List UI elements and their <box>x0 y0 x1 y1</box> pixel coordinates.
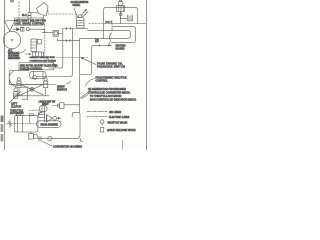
leader squiggle <box>109 33 112 44</box>
check valve symbol (solid arrow + circle) <box>13 28 16 30</box>
wire bell crank stub <box>43 16 45 19</box>
svg-text:CLUTCH: CLUTCH <box>11 106 21 109</box>
engine body <box>15 116 38 132</box>
small relay circle <box>26 28 29 31</box>
wire dashed diagonal with arrow <box>45 57 57 66</box>
svg-text:AIR LINES: AIR LINES <box>109 111 121 114</box>
svg-text:CONTROLLED CONVERTER MECH.: CONTROLLED CONVERTER MECH. <box>88 91 130 94</box>
tee to reservoir cup <box>121 17 127 19</box>
wire horn out with arrow <box>57 117 61 119</box>
leader curve from drum label <box>20 50 26 54</box>
feed arrow into manifold <box>25 53 31 55</box>
reservoir cup <box>127 15 132 21</box>
svg-text:◦ CONN ROD AND CLEVIS: ◦ CONN ROD AND CLEVIS <box>29 60 56 63</box>
wire dashed horizontal to treadle <box>48 11 77 18</box>
junction ticks <box>66 27 68 29</box>
manifold valve horizontal <box>33 52 44 57</box>
box under governor <box>39 112 45 117</box>
svg-text:REAR ENGINE: REAR ENGINE <box>41 124 59 127</box>
governor unit top <box>118 1 123 6</box>
bell crank bracket <box>37 3 49 17</box>
svg-text:N.C.: N.C. <box>22 13 27 17</box>
left clutch valve <box>14 88 18 92</box>
legend electric line sample <box>87 116 107 118</box>
svg-text:BOARD: BOARD <box>116 47 125 50</box>
inset valve left <box>17 78 20 81</box>
wire relay to right with bend <box>29 29 44 33</box>
slave cylinder capsule <box>30 71 47 78</box>
svg-text:N.O. V: N.O. V <box>106 21 113 23</box>
clutch lever arm <box>10 92 21 103</box>
treadle base wire <box>63 28 88 30</box>
wire inset bottom link <box>45 84 56 86</box>
wire connector to bus <box>59 33 64 35</box>
wire bend to connector <box>42 32 53 34</box>
transmission loop box top-right <box>104 8 138 24</box>
vertical from transmission box <box>103 24 105 39</box>
bus vertical 3 <box>79 39 81 113</box>
callout box SEE INSET <box>14 18 43 25</box>
air drum wheel <box>3 31 20 48</box>
svg-text:◦ ADJUST LINK AND ROD: ◦ ADJUST LINK AND ROD <box>29 56 55 59</box>
page right border <box>146 0 148 150</box>
svg-text:CONVERTER HOUSING: CONVERTER HOUSING <box>53 144 82 148</box>
pilot box beside cylinder <box>37 40 41 44</box>
svg-text:PEDAL: PEDAL <box>73 4 82 7</box>
bus vertical 1 <box>62 29 64 66</box>
svg-text:QUICK RELEASE VALVE: QUICK RELEASE VALVE <box>107 129 136 132</box>
margin sideways text left edge <box>1 116 4 142</box>
linkage pivot circle on wire <box>33 75 37 79</box>
svg-text:NON CONTROLLED INDICATOR MECH.: NON CONTROLLED INDICATOR MECH. <box>90 99 137 102</box>
bus vertical 2 <box>71 29 73 75</box>
wire dashed vertical from top <box>18 2 20 20</box>
svg-text:AUX. BRAKE CONTROL: AUX. BRAKE CONTROL <box>15 22 45 25</box>
valve N.C. <box>28 12 31 15</box>
horn bars <box>44 115 46 123</box>
legend air line sample <box>87 111 107 113</box>
rear engine label capsule <box>37 121 62 128</box>
shutoff valve on line <box>95 38 99 43</box>
wire dashed horizontal mid crossing <box>56 57 89 59</box>
inset box outline <box>9 71 45 85</box>
svg-text:SWITCH: SWITCH <box>57 88 67 91</box>
wire lower manifold <box>58 39 80 41</box>
air cylinder vertical <box>31 39 37 52</box>
dashed link to engine <box>30 109 40 111</box>
svg-text:SHUTTLE VALVE: SHUTTLE VALVE <box>108 122 128 125</box>
linkage cross rods <box>21 85 43 95</box>
clutch yoke bracket <box>22 87 28 99</box>
left yoke curve <box>9 72 14 87</box>
wire capsule to bus 2 <box>36 75 72 77</box>
universal joint circle <box>48 137 52 141</box>
legend quick release symbol <box>101 127 104 132</box>
fold mark bottom right <box>121 140 123 150</box>
svg-text:ELECTRIC LINES: ELECTRIC LINES <box>109 116 130 119</box>
hook bracket <box>39 113 42 115</box>
long air line across top <box>89 23 104 25</box>
box under engine <box>30 132 32 134</box>
converter riser <box>77 114 80 139</box>
converter cap staple <box>72 112 80 117</box>
racetrack outer line <box>112 27 136 43</box>
leader front eng throttle <box>86 79 95 87</box>
wire dashed vertical mid-left <box>44 25 46 57</box>
svg-text:FORCIB CONTROL: FORCIB CONTROL <box>20 67 43 70</box>
horn cone <box>47 115 53 122</box>
callout box SEE NOTE <box>19 63 54 70</box>
valve N.C. supply line <box>29 0 31 12</box>
connector block <box>53 31 59 37</box>
drive shaft line <box>38 138 77 140</box>
wire valve to bell crank <box>31 12 38 14</box>
flange bars <box>38 136 40 141</box>
pedal funnel <box>74 8 78 17</box>
left clutch wire <box>9 85 15 89</box>
leader converter housing <box>43 142 53 147</box>
relay block lower middle <box>60 103 65 109</box>
racetrack inner line <box>80 31 131 39</box>
leader front eng oil <box>82 58 97 65</box>
page left border <box>4 0 6 150</box>
linkage pivot cross <box>30 87 34 91</box>
wire governor down <box>120 11 122 23</box>
converter end stub <box>81 139 83 142</box>
linkage base <box>14 95 49 97</box>
legend shuttle valve symbol <box>100 120 104 124</box>
svg-text:ENGAGED: ENGAGED <box>8 57 20 60</box>
junction tick heater line <box>99 44 101 46</box>
svg-text:PRESSURE SWITCH: PRESSURE SWITCH <box>97 66 125 69</box>
leader generator note <box>82 95 88 99</box>
treadle antennae with arrows <box>81 10 87 16</box>
wire inset to bus upper <box>49 66 63 69</box>
racetrack link tick <box>111 27 113 31</box>
leader to notes <box>80 90 91 99</box>
svg-text:CONTROL: CONTROL <box>96 80 109 83</box>
margin note top-left <box>10 0 14 2</box>
governor capsule rear <box>40 105 48 111</box>
lever triangle top-left <box>5 20 16 31</box>
treadle valve <box>77 18 85 29</box>
wire relay to bus <box>64 104 80 106</box>
wire heater branch <box>80 45 110 74</box>
engine fan cross <box>7 123 14 125</box>
junction tick lower wire <box>66 40 68 42</box>
inset valve right <box>44 78 47 81</box>
